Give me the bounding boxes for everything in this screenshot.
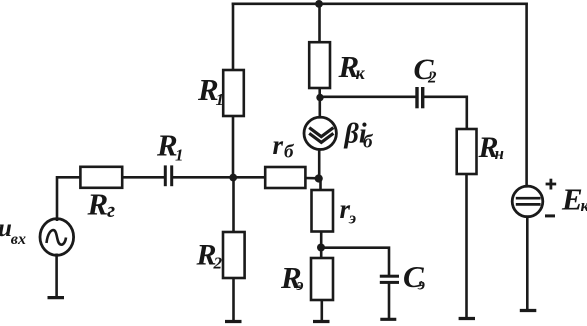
- node: top junction dot: [315, 0, 323, 8]
- wire: R2 bottom to ground: [232, 278, 235, 320]
- wire: b-node down to re: [319, 178, 322, 190]
- svg-text:E: E: [561, 182, 583, 217]
- label rb (base resistance): [273, 130, 296, 163]
- label Rn (load resistor): [478, 131, 504, 164]
- current source beta-ib (circle with double down chevron): [304, 117, 336, 149]
- ground: Ek: [520, 309, 537, 312]
- node: internal base junction dot: [315, 174, 323, 182]
- ground: Rn: [459, 317, 475, 320]
- capacitor C2 (output coupling, plates): [415, 87, 424, 108]
- wire: Rg right to C1 left plate: [122, 176, 164, 179]
- svg-text:вх: вх: [11, 231, 26, 248]
- wire: emitter node right to Ce: [321, 248, 389, 275]
- wire: C1 right plate to base node: [173, 176, 233, 179]
- svg-text:э: э: [296, 275, 304, 294]
- svg-text:б: б: [363, 132, 374, 153]
- svg-text:2: 2: [427, 68, 437, 87]
- wire: collector node down to current source: [318, 98, 321, 118]
- wire: re bottom to emitter node: [320, 232, 323, 259]
- svg-text:б: б: [284, 142, 295, 163]
- resistor R2 (lower bias, vertical box): [223, 232, 245, 278]
- node: emitter junction dot: [317, 244, 325, 252]
- svg-text:к: к: [356, 63, 366, 83]
- wire: R1 bottom to base node: [232, 116, 235, 177]
- wire: current source to b-node: [318, 150, 321, 179]
- label re (emitter resistance): [340, 194, 357, 228]
- svg-text:н: н: [495, 144, 504, 163]
- wire: Ce bottom to ground: [388, 284, 391, 318]
- resistor Re (emitter bias, vertical box): [311, 258, 333, 300]
- svg-text:1: 1: [175, 146, 184, 165]
- label: - polarity of Ek: [545, 214, 555, 217]
- svg-text:э: э: [417, 275, 425, 294]
- label R2 (lower bias resistor): [196, 239, 223, 273]
- wire: Rk bottom to collector node: [318, 88, 321, 98]
- node: base input junction dot: [229, 174, 237, 182]
- label uvx (input voltage): [0, 215, 26, 248]
- label: + polarity of Ek: [546, 179, 557, 190]
- capacitor C1 (input coupling, plates): [164, 165, 173, 186]
- label Rg (generator resistor): [87, 187, 116, 223]
- wire: top bus down to Ek: [525, 4, 528, 187]
- wire: base node down to R2: [232, 177, 235, 232]
- wire: C2 to Rn corner: [424, 97, 467, 129]
- label Rk (collector resistor): [338, 49, 366, 84]
- wire: top bus down to Rk: [318, 4, 321, 42]
- resistor Rg (generator resistance, horizontal box): [80, 167, 122, 188]
- ground: input source: [48, 296, 65, 299]
- label R1 (upper bias resistor): [197, 72, 224, 109]
- wire: rb to b-node: [305, 177, 319, 180]
- wire: Ek bottom to ground: [526, 217, 529, 309]
- resistor Rn (external load, vertical box): [457, 129, 477, 174]
- resistor R1 (upper bias, vertical box): [223, 70, 244, 116]
- svg-text:1: 1: [216, 90, 225, 109]
- svg-text:э: э: [348, 209, 356, 228]
- label beta-ib (controlled current): [344, 119, 375, 153]
- wire: collector node right to C2: [320, 96, 415, 99]
- ground: Ce: [380, 318, 396, 321]
- capacitor Ce (emitter bypass, plates): [380, 275, 399, 284]
- svg-text:R: R: [87, 187, 109, 222]
- source Ek (DC supply circle with double bar): [512, 186, 543, 217]
- wire: Re bottom to ground: [320, 300, 323, 320]
- label Ce (emitter bypass capacitor): [403, 259, 425, 294]
- label Re (emitter resistor): [280, 260, 304, 295]
- svg-text:к: к: [581, 196, 587, 215]
- svg-text:r: r: [273, 130, 284, 160]
- resistor rb (base resistance, horizontal box): [265, 167, 305, 188]
- label C2 (output coupling capacitor): [414, 53, 438, 87]
- node: collector junction dot: [316, 94, 323, 101]
- wire: top supply bus: [233, 2, 527, 5]
- label Ek (supply EMF): [561, 182, 587, 217]
- wire: Rn bottom to ground: [465, 174, 468, 317]
- ground: R2: [225, 320, 242, 323]
- label R1 (input coupling capacitor): [156, 128, 184, 165]
- resistor Rk (collector load, vertical box): [309, 42, 330, 88]
- wire: top bus down to R1: [232, 4, 235, 70]
- ground: Re: [313, 320, 330, 323]
- resistor re (emitter resistance, vertical box): [312, 190, 334, 232]
- wire: base node to rb: [233, 176, 265, 179]
- svg-text:2: 2: [213, 254, 223, 273]
- source uvx (AC input source circle with sine): [40, 219, 74, 256]
- svg-text:г: г: [107, 197, 115, 222]
- wire: input corner up from source: [57, 177, 80, 219]
- wire: source bottom to ground: [55, 255, 58, 296]
